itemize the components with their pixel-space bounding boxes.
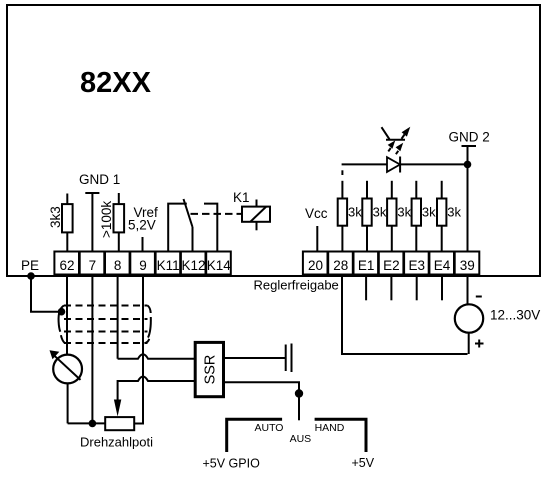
svg-text:K1: K1 xyxy=(233,190,250,205)
svg-text:3k: 3k xyxy=(373,205,387,220)
svg-text:3k: 3k xyxy=(348,205,362,220)
svg-text:3k: 3k xyxy=(422,205,436,220)
svg-text:+5V: +5V xyxy=(352,456,375,470)
svg-text:AUTO: AUTO xyxy=(255,422,284,434)
svg-text:3k3: 3k3 xyxy=(48,206,63,228)
svg-text:Drehzahlpoti: Drehzahlpoti xyxy=(80,435,153,450)
svg-text:E1: E1 xyxy=(358,258,375,273)
svg-text:+5V GPIO: +5V GPIO xyxy=(203,457,261,471)
svg-text:Reglerfreigabe: Reglerfreigabe xyxy=(254,278,339,293)
svg-text:20: 20 xyxy=(308,258,323,273)
svg-text:8: 8 xyxy=(114,258,122,273)
svg-text:3k: 3k xyxy=(397,205,411,220)
svg-text:GND 2: GND 2 xyxy=(449,130,490,145)
svg-text:Vcc: Vcc xyxy=(305,206,328,221)
svg-text:39: 39 xyxy=(460,258,475,273)
svg-text:E4: E4 xyxy=(434,258,451,273)
svg-text:HAND: HAND xyxy=(315,422,345,434)
svg-text:PE: PE xyxy=(21,258,39,273)
svg-text:7: 7 xyxy=(89,258,97,273)
svg-text:K11: K11 xyxy=(157,258,180,273)
svg-text:5,2V: 5,2V xyxy=(128,218,156,233)
svg-text:E2: E2 xyxy=(383,258,400,273)
svg-text:K14: K14 xyxy=(207,258,232,273)
svg-text:>100k: >100k xyxy=(99,201,114,238)
svg-text:AUS: AUS xyxy=(290,433,312,445)
svg-text:3k: 3k xyxy=(447,205,461,220)
svg-text:28: 28 xyxy=(333,258,348,273)
svg-text:12...30V: 12...30V xyxy=(490,308,540,323)
svg-text:E3: E3 xyxy=(408,258,425,273)
svg-text:GND 1: GND 1 xyxy=(79,172,120,187)
svg-text:82XX: 82XX xyxy=(80,67,152,99)
svg-text:K12: K12 xyxy=(181,258,205,273)
svg-text:62: 62 xyxy=(59,258,74,273)
svg-text:9: 9 xyxy=(139,258,147,273)
svg-text:SSR: SSR xyxy=(202,355,218,385)
